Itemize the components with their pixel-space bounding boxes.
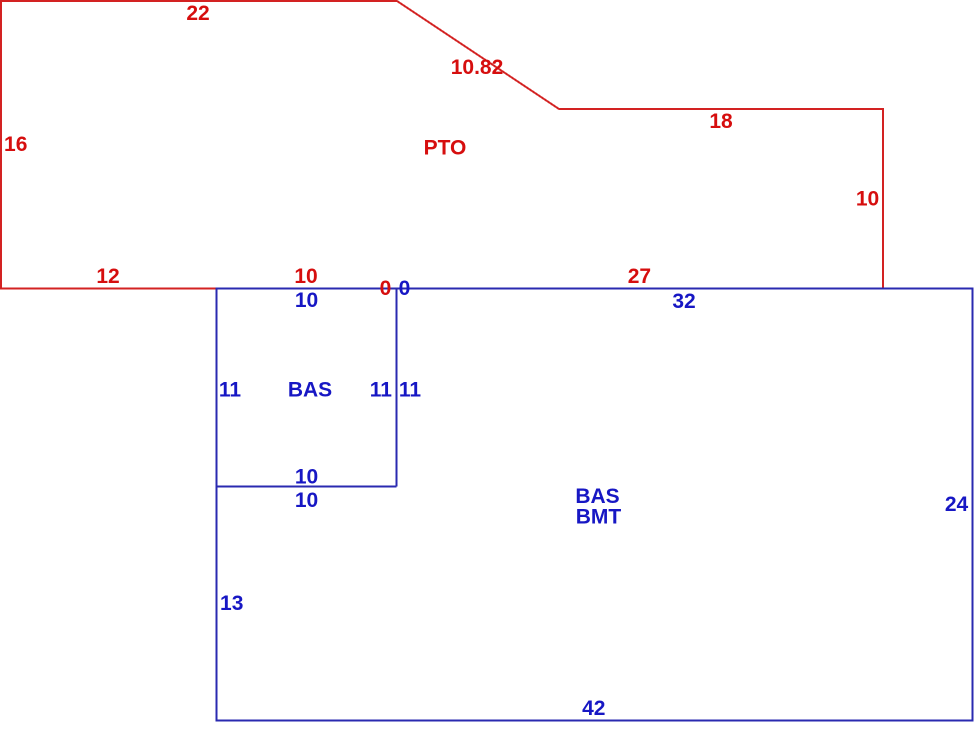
svg-text:32: 32	[672, 290, 695, 313]
BAS/BMT main rectangle (blue)	[217, 289, 973, 721]
svg-text:18: 18	[709, 110, 733, 133]
svg-text:24: 24	[945, 493, 969, 516]
BAS inner partition horizontal wall	[217, 486, 397, 488]
svg-text:10.82: 10.82	[451, 56, 504, 79]
svg-text:0: 0	[380, 277, 392, 300]
svg-text:13: 13	[220, 592, 243, 615]
svg-text:27: 27	[628, 265, 651, 288]
PTO patio outline (red polygon)	[1, 1, 883, 289]
svg-text:42: 42	[582, 697, 605, 720]
BAS inner partition vertical wall	[396, 289, 398, 487]
svg-text:10: 10	[856, 188, 879, 211]
svg-text:11: 11	[370, 379, 393, 402]
svg-text:10: 10	[295, 466, 318, 489]
svg-text:PTO: PTO	[424, 137, 467, 160]
svg-text:11: 11	[399, 379, 422, 402]
svg-text:10: 10	[294, 265, 317, 288]
svg-text:BMT: BMT	[576, 506, 622, 529]
svg-text:0: 0	[399, 277, 411, 300]
svg-text:10: 10	[295, 489, 318, 512]
svg-text:12: 12	[96, 265, 119, 288]
svg-text:10: 10	[295, 289, 318, 312]
svg-text:11: 11	[219, 379, 242, 402]
svg-text:16: 16	[4, 133, 27, 156]
svg-text:22: 22	[186, 2, 209, 25]
svg-text:BAS: BAS	[288, 379, 332, 402]
